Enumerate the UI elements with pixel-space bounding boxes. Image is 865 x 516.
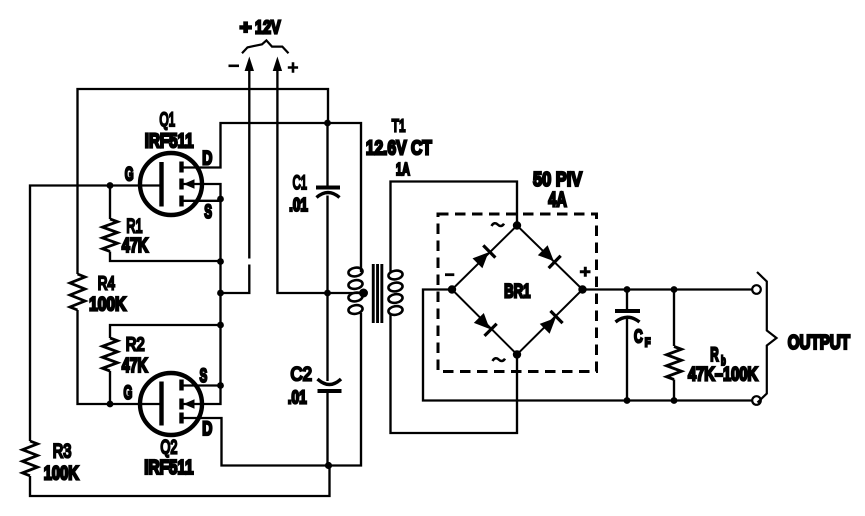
brace under +12V (242, 40, 289, 53)
svg-text:IRF511: IRF511 (144, 456, 193, 478)
wire Q1 source lead (183, 200, 221, 202)
wire R1 top lead (109, 186, 111, 220)
svg-text:12.6V CT: 12.6V CT (366, 137, 432, 159)
svg-text:Q1: Q1 (160, 110, 176, 130)
node bridge AC top (513, 221, 521, 229)
svg-text:R3: R3 (53, 441, 72, 462)
svg-text:R2: R2 (126, 334, 145, 355)
minus sign (supply) (229, 65, 240, 68)
svg-text:.01: .01 (289, 195, 308, 216)
svg-text:4A: 4A (548, 188, 567, 211)
transistor Q1 (140, 153, 202, 215)
svg-text:47K–100K: 47K–100K (688, 362, 758, 385)
wire R3 bottom to Q2 drain node (30, 466, 330, 497)
wire bridge negative to output bottom rail (423, 290, 752, 401)
diode BR1 top-left (471, 245, 495, 269)
svg-text:S: S (200, 365, 208, 387)
diode BR1 bottom-right (539, 311, 563, 335)
svg-text:IRF511: IRF511 (145, 129, 194, 152)
tilde AC top (492, 223, 505, 226)
output brace (757, 272, 777, 403)
svg-text:47K: 47K (122, 234, 149, 257)
capacitor C2 (318, 379, 342, 466)
node bridge positive (578, 285, 586, 293)
svg-text:C: C (634, 327, 643, 347)
node CF bottom (624, 397, 631, 404)
transformer T1 primary winding (348, 267, 363, 315)
node center tap wire / C line (324, 290, 331, 297)
output terminal negative (752, 396, 761, 405)
svg-text:G: G (124, 383, 133, 404)
resistor R3 (23, 441, 38, 476)
node Rb bottom (671, 397, 678, 404)
svg-text:R4: R4 (98, 273, 115, 294)
supply arrow negative (245, 57, 254, 72)
wire Q1 gate to R3 top (30, 186, 161, 442)
svg-text:47K: 47K (122, 353, 148, 376)
wire secondary top to bridge AC top (391, 182, 518, 273)
wire Q2 body to source node (183, 386, 221, 405)
node bridge negative (448, 285, 456, 293)
svg-text:12V: 12V (255, 17, 281, 38)
capacitor CF (615, 290, 640, 401)
wire source rail (219, 199, 221, 386)
svg-text:100K: 100K (89, 293, 126, 315)
svg-text:G: G (125, 165, 134, 186)
bridge BR1 diamond (452, 226, 583, 355)
resistor R1 (103, 219, 118, 251)
wire Q1 drain net to transformer primary top (183, 123, 361, 272)
wire Q2 source lead (183, 384, 221, 386)
wire positive supply to transformer center tap (277, 66, 363, 293)
node transformer center tap (359, 289, 368, 298)
node R2 top on source rail (217, 322, 224, 329)
node negative supply on source rail (217, 290, 224, 297)
node C2 bottom / Q2 drain wire (325, 462, 332, 469)
svg-text:D: D (202, 418, 212, 440)
wire R2 bottom to Q2 gate node (109, 371, 111, 404)
node Q1 gate / R1 top (107, 182, 114, 189)
resistor Rb (667, 290, 682, 401)
svg-text:C2: C2 (291, 364, 313, 385)
resistor R2 (103, 338, 118, 371)
tilde AC bottom (493, 358, 506, 361)
node R1 bottom on source rail (217, 258, 224, 265)
transformer T1 secondary winding (388, 270, 403, 316)
minus sign (bridge) (445, 273, 454, 276)
svg-text:100K: 100K (44, 463, 80, 484)
svg-text:S: S (204, 201, 212, 223)
output terminal positive (752, 285, 761, 294)
svg-text:BR1: BR1 (504, 281, 530, 302)
transistor Q2 (140, 373, 202, 435)
wire Q1 body to source node (183, 184, 221, 199)
svg-text:D: D (202, 147, 212, 169)
svg-text:T1: T1 (392, 116, 406, 136)
BR1 dashed enclosure (438, 214, 597, 372)
svg-text:F: F (645, 338, 651, 350)
node bridge AC bottom (513, 350, 521, 358)
svg-text:Q2: Q2 (161, 437, 178, 458)
node Q1 source (217, 196, 224, 203)
wire top rail (Q1 drain to R4 top) (78, 89, 329, 274)
wire negative supply to source rail (221, 66, 250, 293)
svg-text:+: + (240, 17, 252, 38)
node C1 top / drain rail (324, 120, 331, 127)
wire secondary bottom to bridge AC bottom (391, 314, 518, 433)
node CF top (624, 286, 631, 293)
svg-text:OUTPUT: OUTPUT (788, 331, 850, 354)
svg-text:1A: 1A (396, 159, 410, 179)
node Q2 gate / R2 bottom (107, 401, 114, 408)
resistor R4 (70, 274, 85, 310)
node Q2 source (217, 382, 224, 389)
plus sign (supply) (288, 62, 298, 72)
wire bridge positive to output top rail (583, 288, 753, 290)
svg-text:C1: C1 (293, 173, 307, 194)
wire C1 to C2 (through center-tap node) (326, 196, 328, 382)
supply arrow positive (273, 57, 282, 72)
wire Q2 drain net to transformer primary bottom (183, 313, 361, 466)
node Rb top (671, 286, 678, 293)
wire R1 bottom to source rail (110, 252, 221, 262)
transformer T1 core (372, 264, 384, 323)
wire R4 bottom to Q2 gate (78, 310, 162, 404)
svg-text:.01: .01 (288, 388, 307, 408)
diode BR1 top-right (537, 244, 561, 268)
wire R2 top from source rail (110, 325, 221, 338)
capacitor C1 (316, 123, 340, 198)
diode BR1 bottom-left (473, 312, 497, 336)
plus sign (bridge) (580, 267, 591, 277)
